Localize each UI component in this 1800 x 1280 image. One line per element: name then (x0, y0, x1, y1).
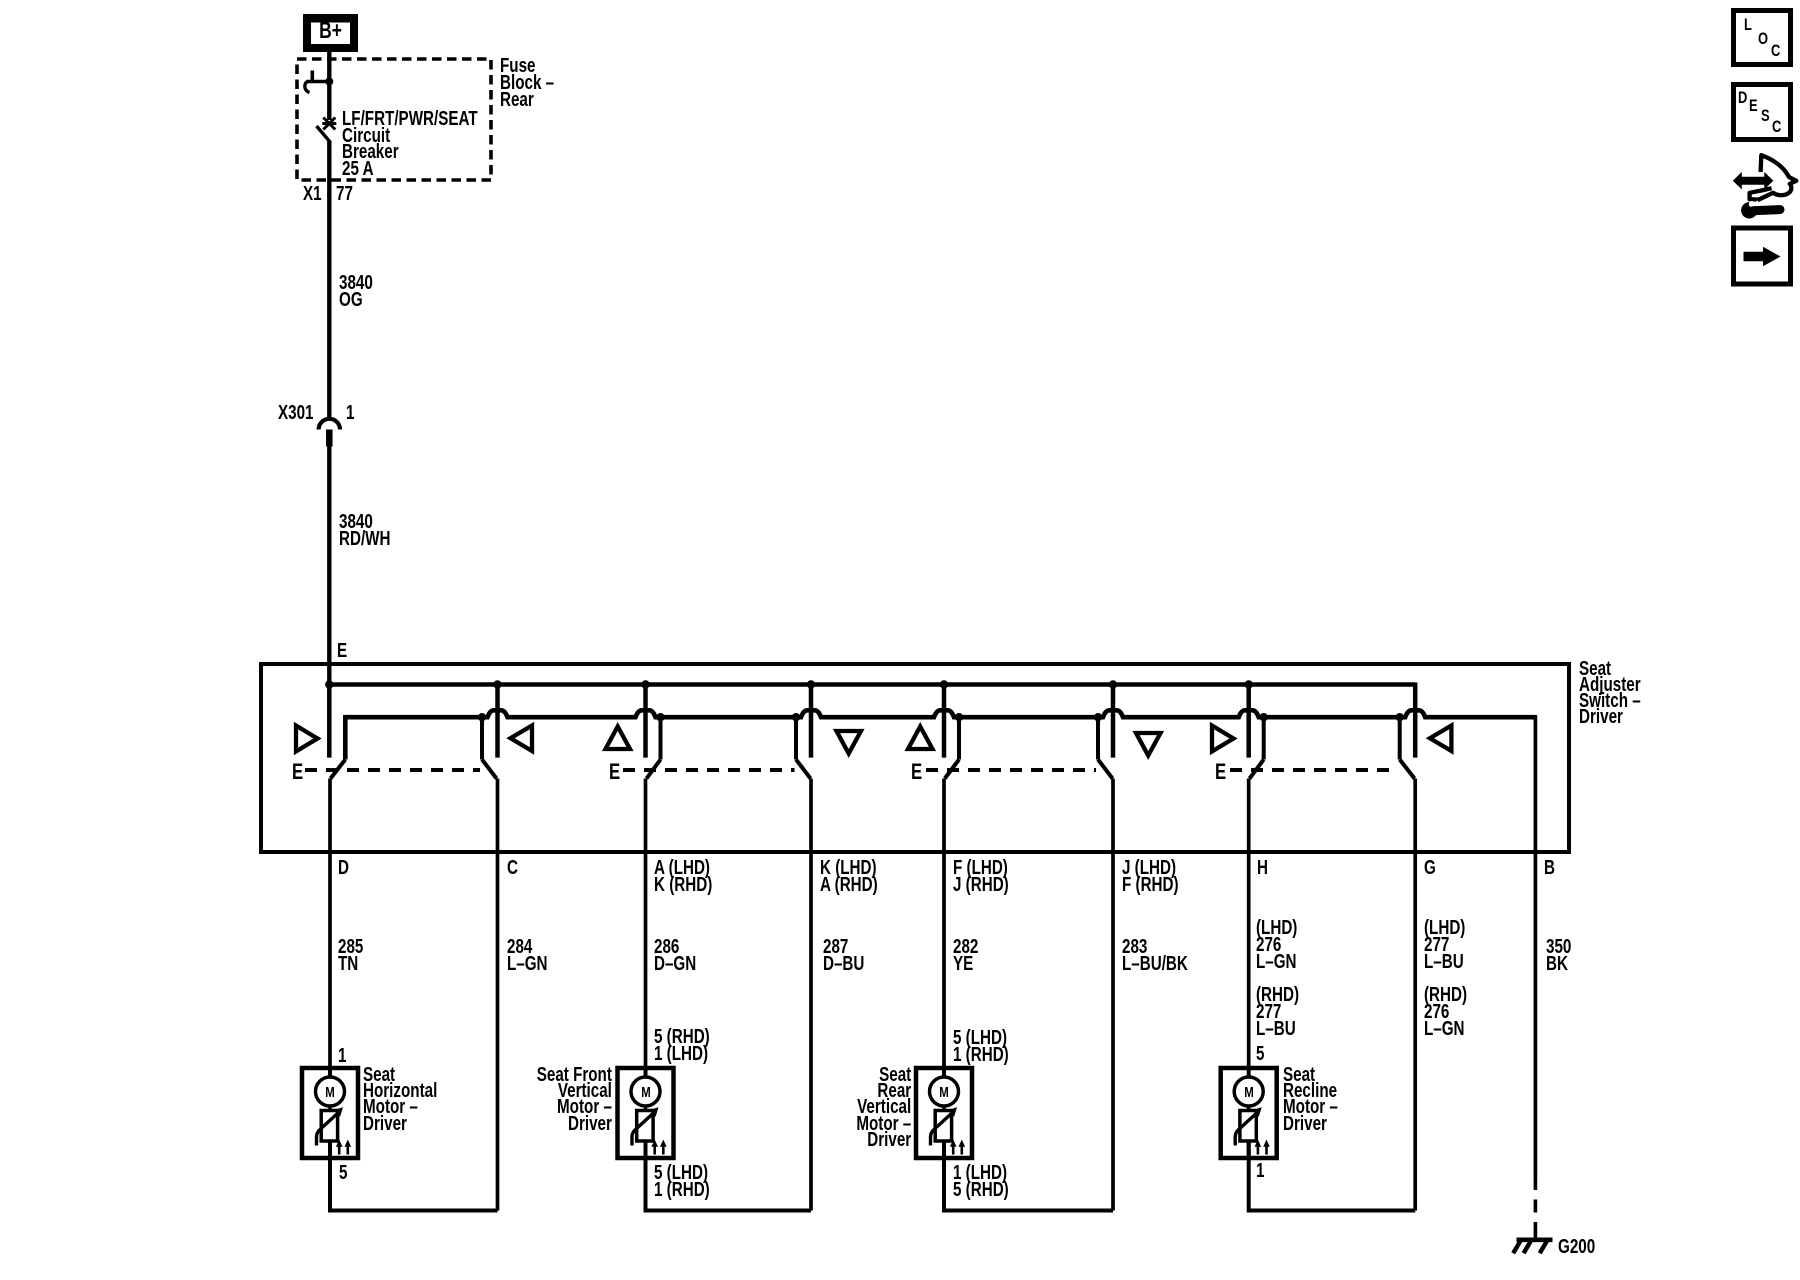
motor pin numbers (338, 1048, 346, 1065)
junction dots on ground bus (478, 713, 486, 721)
circuit breaker CB1 hook (310, 71, 314, 84)
seat recline motor M4 (1221, 1068, 1277, 1158)
motor M letters (309, 1084, 352, 1101)
power feed B+ (303, 14, 358, 52)
pin wires to motors (328, 779, 332, 1069)
switch blades (331, 760, 346, 779)
wire E feed to horizontal fixed contact (327, 686, 332, 758)
wire B to ground dashed (1534, 1177, 1538, 1233)
wire labels (338, 939, 363, 973)
pin labels (338, 860, 349, 877)
label circuit breaker (342, 111, 478, 177)
label 77 (336, 186, 353, 203)
circuit breaker blade (317, 126, 331, 143)
connector X301 pin 1 (319, 419, 340, 430)
motor name labels (363, 1067, 437, 1132)
wire breaker to X301 (327, 141, 331, 419)
seat rear vertical motor M3 (916, 1068, 972, 1158)
wire X301 to switch node E (327, 447, 331, 687)
label B+ (310, 22, 352, 39)
label G200 (1558, 1239, 1595, 1256)
circuit breaker contact star (323, 118, 335, 130)
label X1 (303, 186, 322, 203)
icon panel outline (1750, 155, 1797, 199)
B+ bus inside switch (327, 682, 1415, 687)
seat front vertical motor M2 (618, 1068, 674, 1158)
junction dots on B+ bus (325, 680, 333, 688)
seat adjuster switch box (261, 664, 1569, 852)
icon LOC box (1734, 11, 1791, 65)
label X301 (278, 405, 314, 422)
fuse block dashed box (297, 59, 491, 180)
label pin 1 (346, 405, 354, 422)
E link labels (292, 763, 303, 780)
icon letters (1744, 16, 1752, 33)
label 3840 OG (339, 275, 373, 309)
label Seat Adjuster Switch Driver (1579, 661, 1641, 725)
ground G200 symbol (1517, 1238, 1553, 1243)
label node E (337, 643, 347, 660)
icon DESC box (1734, 85, 1791, 140)
mechanical link dashed E lines (305, 768, 480, 772)
label Fuse Block Rear (500, 58, 554, 109)
seat horizontal motor M1 (302, 1068, 358, 1158)
fixed contact stubs from B+ bus (495, 685, 500, 758)
wire pin B down (1534, 715, 1538, 1177)
pin wires to loop returns (496, 779, 500, 1211)
direction arrow triangles (296, 726, 318, 752)
B+ bus corner down to recline fixed contact (1413, 683, 1418, 758)
icon next-page arrow box (1734, 228, 1791, 284)
icon double arrow (1733, 172, 1774, 190)
wire B+ to circuit breaker (327, 52, 331, 120)
label 3840 RD/WH (339, 514, 391, 548)
icon wrench (1741, 202, 1757, 218)
ground bus with hops (345, 710, 1535, 759)
motor return loops (330, 1141, 498, 1211)
ground bus contact stubs (480, 717, 484, 759)
